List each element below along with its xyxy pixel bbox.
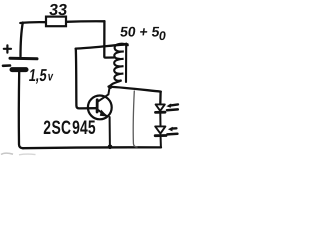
wire top rail left	[20, 21, 46, 24]
wire LED branch top corner	[159, 92, 162, 104]
transistor base bar	[96, 100, 99, 112]
wire middle vertical (collector loop left side, faint thin stroke)	[133, 91, 137, 147]
wire base drop vertical	[76, 49, 97, 109]
LED D2 light arrow upper	[172, 127, 177, 130]
transistor emitter arrowhead	[100, 110, 108, 117]
battery B1 1,5v : positive plate	[10, 57, 37, 61]
label 33	[48, 1, 68, 19]
transformer L1 50+50 : right vertical bar	[125, 44, 127, 82]
wire battery positive riser	[21, 23, 23, 57]
LED D1 light arrow upper	[170, 104, 178, 105]
resistor R 33 (box)	[46, 17, 66, 27]
wire base feed horizontal	[76, 44, 128, 48]
junction collector node	[108, 85, 112, 89]
LED D2 light arrow lower	[167, 132, 177, 135]
LED D1 triangle	[156, 104, 165, 110]
wire top rail right	[66, 20, 105, 23]
transistor collector diagonal and riser	[98, 87, 110, 101]
transistor emitter riser	[109, 117, 111, 146]
transistor Q1 circle	[88, 96, 112, 120]
minus sign	[3, 64, 10, 67]
smudge bottom middle	[19, 153, 36, 156]
smudge bottom left	[1, 153, 13, 154]
plus sign	[4, 45, 11, 52]
label 1,5v	[28, 67, 56, 86]
wire battery negative down	[19, 72, 23, 148]
label 2SC945	[43, 117, 96, 139]
transformer winding loops	[110, 44, 128, 86]
LED D1 light arrow lower	[167, 108, 178, 111]
wire bottom rail	[23, 146, 161, 149]
wire collector rail to LEDs	[109, 87, 161, 92]
wire LED D1 to D2	[159, 114, 161, 126]
LED D2 triangle	[155, 126, 165, 133]
transistor emitter diagonal	[98, 110, 107, 116]
junction emitter node	[108, 145, 113, 150]
LED D2 cathode bar	[155, 134, 166, 137]
svg-text:33: 33	[48, 1, 68, 19]
battery negative plate	[12, 67, 26, 72]
svg-text:2SC945: 2SC945	[43, 117, 96, 139]
wire drop from top rail to coil tap	[104, 21, 114, 57]
wire LED D2 to bottom rail	[160, 137, 162, 147]
label 50 + 50	[119, 23, 168, 43]
LED D1 cathode bar	[156, 111, 166, 114]
